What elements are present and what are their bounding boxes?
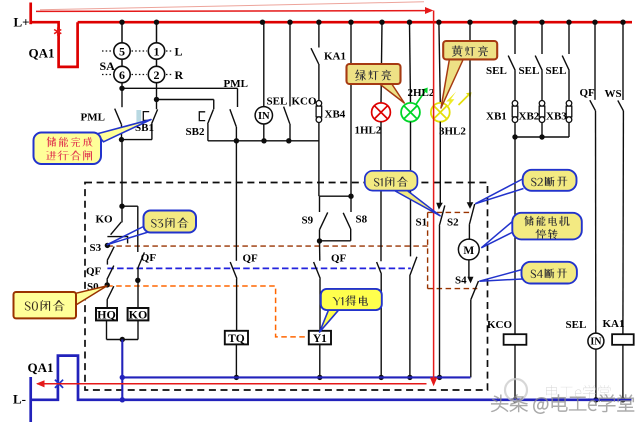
svg-text:M: M — [463, 245, 474, 257]
callout: S4 opens (points to S4) — [479, 270, 522, 282]
contact KCO — [289, 22, 291, 106]
contact QF (2HL2 column) — [410, 257, 417, 276]
contact S4 (with state arrow) — [468, 260, 470, 278]
svg-text:TQ: TQ — [228, 333, 245, 345]
junction dots on L+ bus — [119, 20, 124, 25]
contact S0 — [105, 282, 110, 287]
wire XB merge rail — [515, 136, 569, 138]
wire SA-6 to node — [121, 83, 123, 89]
wire SB1/PML junction — [122, 139, 153, 141]
callout: Y1 energized (points to Y1 coil) — [320, 310, 339, 332]
wire rail from SA-6 to PML — [122, 87, 238, 89]
contact PML (left) — [121, 88, 123, 107]
svg-text:L+: L+ — [14, 15, 30, 30]
wire Y1 to blue bus — [319, 345, 321, 378]
link XB4 — [318, 64, 320, 101]
svg-text:SEL: SEL — [566, 319, 587, 331]
dashed enclosure (cabinet boundary) — [85, 183, 488, 391]
svg-text:R: R — [175, 68, 184, 82]
svg-text:QF: QF — [86, 266, 102, 278]
highlight route S0-Y1 (orange dashed) — [107, 286, 308, 337]
contact QF (right) + SEL indicator — [594, 22, 596, 100]
callout: charging complete, close breaker (points to SB1) — [97, 120, 152, 142]
wire S9/S8 bottom bracket — [320, 240, 351, 242]
svg-text:IN: IN — [258, 111, 270, 122]
link XB3 — [566, 101, 572, 107]
contact S8 — [350, 196, 352, 212]
svg-text:QA1: QA1 — [29, 46, 55, 61]
svg-text:QF: QF — [243, 253, 259, 265]
svg-text:XB4: XB4 — [325, 109, 346, 121]
svg-text:IN: IN — [590, 337, 602, 348]
svg-text:PML: PML — [81, 112, 105, 124]
wire TQ to blue bus — [235, 345, 237, 378]
callout: yellow lamp on (points to 3HL2) — [441, 57, 464, 108]
svg-text:XB1: XB1 — [486, 111, 507, 123]
svg-text:2HL2: 2HL2 — [408, 87, 435, 99]
highlight route QF (blue dashed) — [107, 267, 410, 269]
svg-text:S4: S4 — [455, 275, 467, 287]
contact QF (Y1 column) — [319, 241, 321, 261]
svg-text:SEL: SEL — [267, 95, 288, 107]
inner blue bus (coil return) — [122, 376, 470, 378]
wire 2HL2 to S-row — [410, 122, 412, 257]
red control bus L+ — [78, 21, 632, 24]
callout: S1 closes (points to S1) — [393, 190, 441, 216]
link XB2 — [539, 101, 545, 107]
circuit breaker QA1 (top, red) — [31, 22, 78, 67]
svg-text:XB3: XB3 — [546, 111, 567, 123]
current-flow return line (bottom) — [37, 383, 426, 385]
wire SB1 column into box — [121, 140, 123, 207]
contact S2 (with state arrow) — [469, 22, 471, 203]
watermark echo (faint upper) — [546, 385, 611, 399]
watermark logo circle (faint) — [505, 379, 527, 401]
svg-text:SA: SA — [100, 59, 116, 73]
svg-text:KCO: KCO — [292, 95, 318, 107]
svg-text:SEL: SEL — [519, 65, 540, 77]
coil Y1 — [309, 331, 331, 345]
svg-text:SEL: SEL — [546, 65, 567, 77]
svg-text:S2: S2 — [447, 217, 459, 229]
current-flow line (vertical, right) — [433, 11, 435, 380]
coil KCO — [514, 137, 516, 334]
svg-text:S3: S3 — [90, 242, 102, 254]
link XB1 — [512, 101, 518, 107]
contact QF (1HL2 column) — [380, 122, 382, 262]
svg-text:PML: PML — [224, 78, 248, 90]
selector switch SA contact 6-2 — [121, 59, 123, 66]
contact SEL #3 — [568, 22, 570, 54]
indicator SEL/IN — [263, 22, 265, 106]
svg-text:1HL2: 1HL2 — [355, 125, 382, 137]
contact QF (chain) — [107, 266, 114, 280]
contact WS + coil KA1 — [622, 22, 624, 100]
callout: charging motor stops (points to M) — [481, 221, 513, 248]
lamp 3HL2 (yellow, lit) — [439, 22, 440, 103]
svg-text:L-: L- — [13, 392, 26, 407]
coil HQ (close coil) — [96, 308, 117, 320]
highlight route S3-S2 (dark red dashed) — [107, 245, 427, 247]
lamp 1HL2 (red) — [381, 22, 382, 103]
svg-text:S9: S9 — [302, 215, 314, 227]
svg-text:QF: QF — [141, 252, 157, 264]
wire HQ/KO merge — [106, 320, 108, 339]
wire S1 to blue bus — [439, 226, 441, 378]
svg-text:XB2: XB2 — [519, 111, 540, 123]
svg-text:KCO: KCO — [487, 319, 513, 331]
svg-text:QF: QF — [331, 253, 347, 265]
contact S9 — [319, 196, 321, 212]
coil KO — [128, 308, 149, 320]
terminal L+ (DC positive) — [29, 3, 32, 25]
svg-text:2: 2 — [154, 68, 160, 82]
trip cross marker (blue x) — [55, 380, 63, 388]
wire column from bus to S9/S8 — [350, 22, 352, 196]
coil TQ (trip coil) — [225, 331, 248, 345]
watermark: Toutiao @ dianGong e xueTang — [491, 395, 634, 414]
svg-text:KO: KO — [129, 307, 148, 321]
svg-text:3HL2: 3HL2 — [439, 126, 466, 138]
svg-text:Y1: Y1 — [313, 333, 327, 345]
svg-text:SEL: SEL — [486, 65, 507, 77]
lamp 2HL2 (green, lit) — [410, 22, 411, 103]
svg-text:QF: QF — [580, 87, 596, 99]
contact KA1 — [318, 22, 320, 47]
contact S1 (with state arrow) — [439, 122, 441, 205]
svg-text:L: L — [175, 45, 183, 59]
motor M (spring-charging motor) — [458, 239, 479, 260]
contact QF (TQ column) — [235, 141, 237, 261]
svg-text:QA1: QA1 — [28, 360, 54, 375]
wire branch to QF/KO coil — [122, 205, 138, 207]
svg-text:KA1: KA1 — [324, 51, 346, 63]
svg-text:5: 5 — [119, 44, 125, 58]
contact SEL #2 — [541, 22, 543, 54]
wire S9/S8 top bracket — [320, 195, 352, 197]
svg-text:HQ: HQ — [97, 307, 116, 321]
contact PML (middle) — [237, 88, 239, 107]
contact KO — [121, 206, 123, 222]
pushbutton SB1 — [156, 100, 158, 110]
callout: S2 opens (points to S2) — [475, 179, 523, 204]
contact S3 — [105, 243, 110, 248]
selector switch SA contact 5-1 — [121, 22, 123, 43]
callout: green lamp on (points to 2HL2) — [377, 82, 404, 103]
terminal L- and breaker QA1 (bottom, blue) — [29, 377, 32, 422]
svg-text:KO: KO — [96, 214, 114, 226]
contact SEL #1 — [514, 22, 516, 54]
svg-text:S8: S8 — [356, 214, 368, 226]
wire rail from SA-2 to SB2 — [157, 99, 214, 101]
callout: S0 closes (points to S0) — [72, 286, 107, 305]
svg-text:6: 6 — [119, 68, 125, 82]
svg-text:WS: WS — [605, 88, 622, 100]
contact QF (KO branch) — [137, 206, 139, 252]
current-flow arrow (top) — [36, 10, 426, 13]
pushbutton SB2 — [213, 100, 215, 110]
svg-text:S1: S1 — [416, 217, 428, 229]
trip marker asterisk on QA1 — [57, 27, 59, 35]
callout: S3 closes (points to S3) — [107, 226, 145, 245]
wire rail y141 — [208, 140, 319, 142]
svg-text:1: 1 — [154, 44, 160, 58]
wire SA-2 to node — [156, 83, 158, 100]
svg-text:SB2: SB2 — [186, 126, 205, 138]
blue link HQ/KO to bus — [121, 340, 123, 401]
svg-text:KA1: KA1 — [603, 318, 625, 330]
